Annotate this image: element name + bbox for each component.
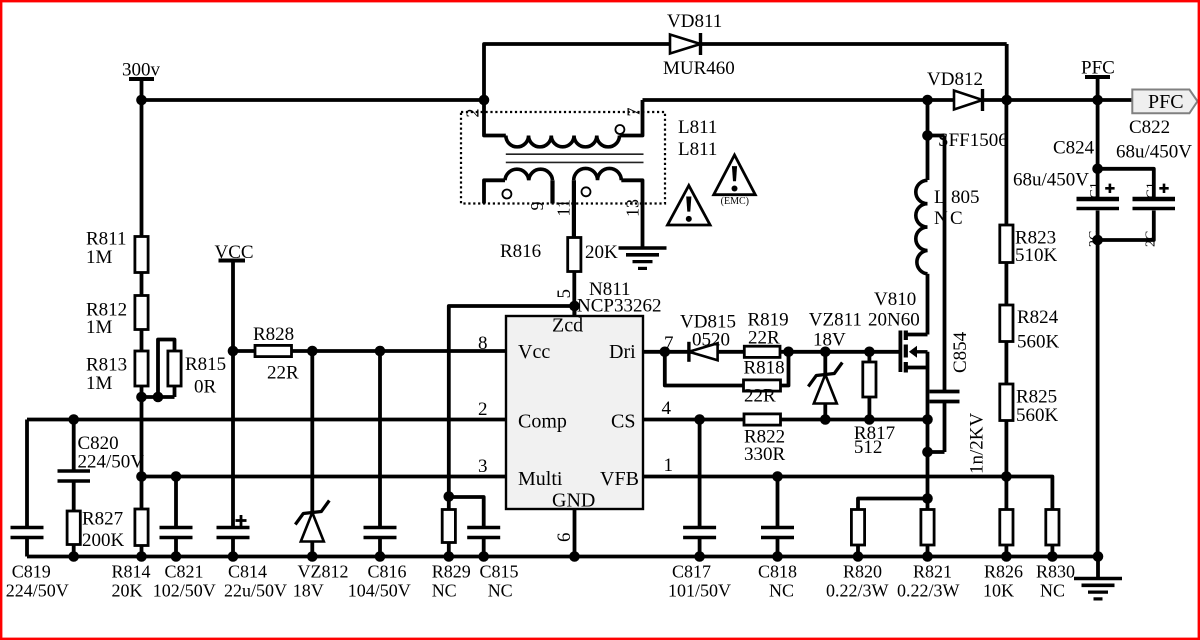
capacitor C817 [698, 420, 702, 528]
wire R818 loop [665, 352, 789, 386]
node A junction 300v [136, 95, 147, 106]
junction dot C822 bottom [1092, 235, 1103, 246]
svg-text:18V: 18V [293, 581, 324, 601]
svg-text:Comp: Comp [518, 411, 567, 433]
wire secondary1 right pin9 [550, 180, 554, 203]
net PFC tag [1132, 90, 1197, 114]
junction dot VZ812 top [307, 346, 318, 357]
svg-text:2C: 2C [1144, 231, 1159, 247]
junction dot C818 top [772, 471, 783, 482]
junction dot PFC node [1092, 95, 1103, 106]
capacitor C824 polarized [1077, 197, 1120, 201]
junction dot R814 bottom [136, 551, 147, 562]
wire Zcd line [449, 306, 575, 497]
svg-text:(EMC): (EMC) [721, 196, 749, 207]
junction dot C820 top [68, 414, 79, 425]
capacitor C822 polarized [1133, 197, 1176, 201]
wire secondary2 right [621, 180, 642, 203]
junction dot C816 bottom [375, 551, 386, 562]
svg-text:R821: R821 [913, 562, 952, 582]
svg-text:Zcd: Zcd [552, 315, 583, 337]
svg-text:R830: R830 [1036, 562, 1075, 582]
wire CS line [643, 418, 928, 422]
wire Dri line [643, 350, 900, 354]
svg-text:VD811: VD811 [667, 11, 722, 32]
svg-text:NC: NC [769, 581, 794, 601]
wire source to R821 [926, 420, 930, 510]
junction dot C814 bottom [228, 551, 239, 562]
wire ground stub right [1096, 557, 1100, 579]
svg-text:C816: C816 [368, 562, 407, 582]
junction dot R818 right [783, 347, 794, 358]
svg-text:224/50V: 224/50V [6, 581, 69, 601]
svg-text:0.22/3W: 0.22/3W [826, 581, 889, 601]
capacitor C814 polarized [217, 526, 250, 530]
junction dot R829 top [444, 491, 455, 502]
junction dot VCC R828 [228, 346, 239, 357]
junction dot R815 bottom [153, 392, 164, 403]
wire secondary1 left [484, 180, 505, 203]
svg-text:1M: 1M [86, 317, 113, 338]
svg-text:102/50V: 102/50V [153, 581, 216, 601]
svg-text:R828: R828 [253, 324, 294, 345]
svg-text:CS: CS [611, 411, 635, 433]
wire R820 hook [858, 499, 928, 510]
junction dot Multi left [136, 471, 147, 482]
svg-text:5: 5 [554, 289, 575, 299]
svg-text:2C: 2C [1087, 231, 1102, 247]
junction dot VZ811 bottom [820, 414, 831, 425]
svg-text:1n/2KV: 1n/2KV [967, 413, 988, 475]
svg-text:9: 9 [527, 202, 547, 211]
resistor R813 [135, 351, 148, 386]
polarity dot secondary2 [582, 187, 591, 196]
svg-text:0.22/3W: 0.22/3W [897, 581, 960, 601]
wire VZ812 branch [310, 351, 314, 513]
svg-text:560K: 560K [1016, 405, 1059, 426]
junction dot R827 bottom [68, 551, 79, 562]
junction dot pin6 ground [569, 551, 580, 562]
resistor R818 [744, 380, 781, 391]
diode VD812 [954, 91, 983, 110]
svg-text:C821: C821 [165, 562, 204, 582]
resistor R827 [67, 511, 80, 545]
capacitor C820 [72, 420, 76, 472]
junction dot R826 bottom [1001, 551, 1012, 562]
warning triangle 1 [668, 186, 711, 226]
diode VD811 [670, 35, 701, 54]
polarity dot primary [615, 125, 624, 134]
svg-text:104/50V: 104/50V [348, 581, 411, 601]
wire VCC rail [231, 261, 235, 528]
wire pin6 GND stub [573, 509, 577, 557]
junction dot VZ812 bottom [307, 551, 318, 562]
svg-text:C819: C819 [12, 562, 51, 582]
svg-text:224/50V: 224/50V [78, 452, 145, 473]
transformer L811 shield box [461, 112, 665, 204]
wire L805 to drain [926, 274, 930, 335]
zener diode VZ811 [814, 375, 837, 404]
resistor R825 [1000, 384, 1013, 421]
ground pin13 [619, 246, 667, 250]
svg-text:560K: 560K [1017, 332, 1060, 353]
svg-text:Vcc: Vcc [518, 341, 550, 363]
junction dot C817 top [694, 414, 705, 425]
svg-text:330R: 330R [744, 444, 786, 465]
wire pin5 stub [573, 306, 577, 316]
svg-text:101/50V: 101/50V [668, 581, 731, 601]
wire R816 to Zcd [572, 272, 576, 317]
transistor V810 mosfet [906, 333, 928, 337]
svg-text:NCP33262: NCP33262 [577, 296, 661, 317]
svg-text:20K: 20K [112, 581, 143, 601]
svg-text:512: 512 [854, 437, 883, 458]
svg-text:R814: R814 [112, 562, 151, 582]
resistor R811 [135, 237, 148, 273]
svg-text:R818: R818 [744, 358, 785, 379]
junction dot C821 top [171, 471, 182, 482]
junction dot VFB R825 [1001, 471, 1012, 482]
transformer core [506, 153, 644, 155]
junction dot C817 bottom [694, 551, 705, 562]
resistor R814 [135, 509, 148, 546]
svg-text:6: 6 [554, 533, 575, 543]
inductor L805 [916, 180, 928, 273]
svg-text:C: C [950, 208, 963, 229]
wire PFC rail [1096, 100, 1100, 197]
svg-text:R820: R820 [843, 562, 882, 582]
resistor R815 [168, 351, 181, 386]
svg-text:VZ811: VZ811 [809, 310, 862, 331]
capacitor C815 [467, 526, 500, 530]
wire R830 hook [1006, 477, 1052, 510]
svg-text:NC: NC [488, 581, 513, 601]
resistor R822 [744, 414, 781, 425]
junction dot R817 top [864, 347, 875, 358]
svg-text:68u/450V: 68u/450V [1013, 170, 1089, 191]
svg-text:C817: C817 [672, 562, 711, 582]
svg-text:R815: R815 [185, 354, 226, 375]
wire main to VD812 [643, 98, 955, 102]
wire ground bus [27, 555, 1098, 559]
op-amp U1 IC N811 NCP33262 body [506, 316, 643, 509]
svg-text:VZ812: VZ812 [298, 562, 349, 582]
diode VD815 [689, 343, 718, 360]
wire VD812 cathode [983, 98, 1133, 102]
svg-text:3: 3 [478, 456, 488, 477]
svg-text:C818: C818 [758, 562, 797, 582]
resistor R817 [868, 352, 872, 362]
svg-text:R829: R829 [432, 562, 471, 582]
svg-text:0R: 0R [194, 377, 217, 398]
zener diode VZ812 [301, 513, 324, 542]
svg-text:VCC: VCC [215, 242, 254, 263]
junction dot VD812 anode [922, 95, 933, 106]
wire Vcc pin8 line [233, 349, 506, 353]
junction dot R818 left [660, 347, 671, 358]
svg-text:NC: NC [1040, 581, 1065, 601]
junction dot R830 bottom [1047, 551, 1058, 562]
wire transformer primary right [620, 100, 643, 136]
junction dot R829 bottom [444, 551, 455, 562]
resistor R820 [851, 510, 864, 546]
junction dot R820 top [922, 493, 933, 504]
wire source to CS [926, 352, 930, 420]
svg-text:PFC: PFC [1081, 58, 1115, 79]
svg-text:805: 805 [951, 187, 980, 208]
wire C822 loop [1098, 169, 1154, 197]
svg-text:10K: 10K [983, 581, 1014, 601]
junction dot C816 top [375, 346, 386, 357]
junction dot C815 bottom [478, 551, 489, 562]
wire transformer primary left [484, 100, 506, 136]
junction dot bypass join [1001, 95, 1012, 106]
ground main [1074, 577, 1122, 581]
svg-text:C854: C854 [950, 331, 971, 373]
wire feedback divider [1005, 100, 1009, 225]
resistor R816 [568, 238, 581, 272]
warning triangle 2 EMC [714, 155, 756, 195]
junction dot VZ811 top [820, 347, 831, 358]
resistor R823 [1000, 225, 1013, 263]
svg-text:Dri: Dri [609, 341, 636, 363]
svg-text:VFB: VFB [600, 468, 639, 490]
svg-text:68u/450V: 68u/450V [1116, 142, 1192, 163]
transformer L811 primary winding [506, 136, 620, 147]
wire drain column top [926, 100, 930, 180]
resistor R826 [1005, 477, 1009, 510]
svg-text:L811: L811 [678, 117, 717, 138]
svg-text:SFF1506: SFF1506 [938, 130, 1008, 151]
junction dot L805 top [922, 130, 933, 141]
svg-text:300v: 300v [122, 60, 161, 81]
wire pin13 to ground [641, 204, 645, 249]
svg-text:Multi: Multi [518, 468, 563, 490]
junction dot R821 bottom [922, 551, 933, 562]
svg-text:R827: R827 [82, 509, 123, 530]
svg-text:22R: 22R [267, 363, 299, 384]
svg-text:MUR460: MUR460 [663, 58, 735, 79]
polarity dot secondary1 [502, 190, 511, 199]
svg-text:R826: R826 [984, 562, 1023, 582]
svg-text:510K: 510K [1015, 245, 1058, 266]
svg-text:22R: 22R [744, 386, 776, 407]
capacitor C821 [174, 477, 178, 528]
wire 300v bus to transformer [142, 98, 485, 102]
svg-text:C824: C824 [1053, 138, 1095, 159]
wire left divider chain [140, 100, 144, 237]
svg-text:22R: 22R [748, 328, 780, 349]
wire VD811 bypass [484, 44, 670, 100]
svg-text:200K: 200K [82, 530, 125, 551]
resistor R829 [447, 497, 451, 510]
svg-text:L811: L811 [678, 139, 717, 160]
wire divider to R814 [140, 397, 144, 509]
junction dot ground bus right [1093, 551, 1104, 562]
svg-text:11: 11 [554, 199, 574, 216]
junction dot C818 bottom [772, 551, 783, 562]
svg-text:7: 7 [624, 108, 644, 117]
junction dot C821 bottom [171, 551, 182, 562]
wire Multi bus [142, 475, 507, 479]
svg-text:GND: GND [552, 490, 595, 512]
wire VFB line [643, 475, 1006, 479]
transformer L811 secondary2 winding [574, 168, 622, 180]
svg-text:C822: C822 [1129, 117, 1170, 138]
svg-text:22u/50V: 22u/50V [224, 581, 287, 601]
junction dot R817 bottom [864, 414, 875, 425]
svg-text:2: 2 [478, 399, 488, 420]
svg-text:7: 7 [664, 333, 674, 354]
svg-text:C1: C1 [1145, 182, 1160, 198]
wire R815 bracket [158, 340, 175, 398]
svg-text:20N60: 20N60 [868, 310, 920, 331]
junction dot C822 top [1092, 164, 1103, 175]
resistor R812 [135, 296, 148, 330]
svg-text:C1: C1 [1088, 182, 1103, 198]
svg-text:R816: R816 [500, 241, 541, 262]
wire R813 bottom junction [142, 395, 175, 399]
svg-text:R824: R824 [1017, 307, 1059, 328]
junction dot source CS [922, 414, 933, 425]
svg-text:0520: 0520 [692, 330, 730, 351]
svg-text:13: 13 [623, 199, 643, 217]
svg-text:C814: C814 [228, 562, 267, 582]
wire C815 hook [449, 497, 484, 528]
svg-text:NC: NC [432, 581, 457, 601]
capacitor C854 [928, 134, 945, 138]
svg-text:4: 4 [662, 398, 672, 419]
svg-text:V810: V810 [874, 289, 916, 310]
wire Comp bus [27, 418, 506, 422]
junction dot C854 bottom [922, 447, 933, 458]
resistor R828 [255, 345, 292, 356]
resistor R819 [744, 346, 780, 357]
svg-text:C815: C815 [480, 562, 519, 582]
net VCC terminal [219, 259, 246, 263]
svg-text:1M: 1M [86, 247, 113, 268]
svg-text:18V: 18V [813, 330, 846, 351]
junction dot primary left [479, 95, 490, 106]
net PFC terminal [1085, 75, 1110, 79]
svg-text:8: 8 [478, 333, 488, 354]
capacitor C816 [378, 351, 382, 528]
resistor R821 [921, 510, 934, 546]
svg-text:PFC: PFC [1148, 91, 1184, 113]
junction dot R813 bottom [136, 392, 147, 403]
junction dot R820 bottom [853, 551, 864, 562]
resistor R824 [1000, 305, 1013, 342]
net 300v terminal [129, 77, 154, 81]
svg-text:2: 2 [463, 109, 483, 118]
svg-text:20K: 20K [585, 242, 618, 263]
svg-text:VD812: VD812 [927, 69, 983, 90]
junction dot Zcd pin5 [569, 301, 580, 312]
svg-text:1: 1 [664, 455, 674, 476]
wire VZ811 branch [823, 352, 827, 375]
transformer L811 secondary1 winding [505, 169, 553, 180]
capacitor C819 [25, 420, 29, 528]
wire secondary2 left pin11 [572, 180, 576, 237]
svg-text:1M: 1M [86, 373, 113, 394]
capacitor C818 [776, 477, 780, 528]
resistor R830 [1046, 510, 1059, 546]
